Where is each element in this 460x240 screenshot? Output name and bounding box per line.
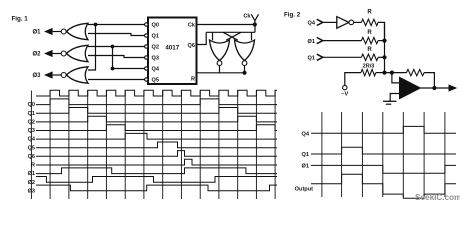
cross wire B <box>223 32 238 40</box>
svg-text:Q4: Q4 <box>302 131 310 137</box>
waveform row Q4 <box>36 133 277 139</box>
svg-text:Q3: Q3 <box>152 56 159 62</box>
pin circle Q0 <box>145 23 148 26</box>
wire clock node down to gate bus <box>254 25 256 33</box>
waveform row Q3 <box>36 125 277 131</box>
pin circle Q5 <box>145 78 148 81</box>
svg-text:Q3: Q3 <box>28 128 35 134</box>
svg-text:Q5: Q5 <box>28 145 35 151</box>
svg-text:Fig. 2: Fig. 2 <box>284 12 301 19</box>
svg-text:Fig. 1: Fig. 1 <box>12 16 29 23</box>
svg-text:Q6: Q6 <box>28 154 35 160</box>
svg-text:Q1: Q1 <box>308 56 315 62</box>
junction node row2 <box>382 39 386 43</box>
resistor R1 <box>361 19 378 25</box>
pin circle Q2 <box>145 45 148 48</box>
waveform row &#216;1 <box>36 168 277 174</box>
svg-text:Q0: Q0 <box>152 23 159 29</box>
wire non-inverting input to ground <box>390 94 399 102</box>
wire Q5 to G3 input <box>88 79 145 81</box>
resistor R2 <box>361 37 378 43</box>
svg-text:R: R <box>367 47 372 53</box>
svg-text:Ck: Ck <box>243 14 251 20</box>
svg-text:Q5: Q5 <box>152 78 159 84</box>
wire Q0 to G1 input <box>88 24 145 26</box>
resistor R3 <box>361 54 378 60</box>
svg-text:2R/3: 2R/3 <box>363 63 375 69</box>
svg-text:Ø3: Ø3 <box>28 188 35 194</box>
wire Q3 to G2 input with jog <box>88 56 145 58</box>
NOR gate G1 with output arrow and label Ø1 <box>67 23 89 39</box>
wire Ø1 to resistor R2 <box>323 40 361 42</box>
feedback resistor R5 <box>407 69 425 75</box>
waveform row Ø1 (fig2) <box>311 165 456 173</box>
waveform row Q4 (fig2) <box>311 126 456 133</box>
NOR gate G5 (flip-flop right) <box>235 40 255 61</box>
svg-text:Ø1: Ø1 <box>32 30 41 36</box>
ground symbol <box>383 100 397 102</box>
waveform row Q1 <box>36 108 277 114</box>
waveform row &#216;3 <box>36 185 277 191</box>
wire op-amp output <box>420 87 449 89</box>
svg-text:R: R <box>191 77 195 83</box>
waveform row Q0 <box>36 99 277 105</box>
pin circle Q3 <box>145 56 148 59</box>
terminal -V <box>343 85 347 89</box>
resistor R4 2R/3 <box>361 69 376 75</box>
junction node on R wire <box>242 71 246 75</box>
wire Q6 pin to top bus <box>197 32 207 44</box>
svg-text:–V: –V <box>341 92 348 98</box>
svg-text:R: R <box>31 163 35 169</box>
wire R2 to node <box>378 40 384 42</box>
wire feedback to output <box>424 73 434 88</box>
wire R1 to node <box>378 22 384 40</box>
svg-text:4017: 4017 <box>165 45 179 52</box>
wire Q1 to resistor R3 <box>323 56 361 58</box>
wire Q4 to bus V2 <box>113 68 145 70</box>
NOR gate G3 with output arrow and label Ø3 <box>67 67 89 83</box>
wire G4 output down <box>219 66 221 73</box>
svg-text:SeekIC.com: SeekIC.com <box>415 193 460 202</box>
wire node to op-amp inverting input <box>385 72 407 74</box>
inverter U2 <box>337 17 349 29</box>
wire stub to G4 left input <box>212 32 214 40</box>
op-amp U3 <box>400 77 421 98</box>
waveform row &#216;2 <box>36 177 277 183</box>
waveform row Q1 (fig2) <box>311 147 456 154</box>
cross wire A <box>226 32 241 40</box>
wire bus V1 from Q0 down to G3 <box>88 25 96 71</box>
wire G5 output down to R wire <box>244 66 246 73</box>
wire Ck pin to clock input node <box>197 24 255 26</box>
svg-text:Q4: Q4 <box>308 21 316 27</box>
wire bus V2 from Q2 to Q4 wire <box>112 47 114 69</box>
junction node on Q0 wire <box>94 23 98 27</box>
wire R pin to gate outputs <box>197 72 245 74</box>
wire R3 to node <box>378 56 384 58</box>
svg-text:Output: Output <box>295 187 313 193</box>
junction node on Q4 wire <box>111 67 115 71</box>
IC U1 4017 box <box>148 18 197 85</box>
summing node vertical wire <box>384 22 386 72</box>
svg-text:Q4: Q4 <box>28 137 36 143</box>
svg-text:Ck: Ck <box>188 23 196 29</box>
junction node row4 <box>382 71 386 75</box>
svg-text:Ø1: Ø1 <box>28 171 35 177</box>
svg-text:Q2: Q2 <box>152 45 159 51</box>
timing grid vertical lines (fig2) <box>321 112 323 197</box>
svg-text:Q1: Q1 <box>28 111 35 117</box>
svg-text:Q2: Q2 <box>28 120 35 126</box>
junction node clock input <box>253 22 257 26</box>
svg-text:Q1: Q1 <box>302 152 309 158</box>
output arrow <box>449 84 458 91</box>
svg-text:Ø3: Ø3 <box>32 73 41 79</box>
wire Q4 to inverter <box>323 21 337 23</box>
waveform row Q6 <box>36 151 277 157</box>
wire Q2 to G2 input <box>88 46 145 48</box>
svg-text:Ø2: Ø2 <box>28 180 35 186</box>
waveform row R <box>36 159 277 165</box>
timing grid vertical lines (fig1) <box>30 91 32 200</box>
clock input terminal Y symbol with label Ck <box>251 14 258 20</box>
NOR gate G2 with output arrow and label Ø2 <box>67 45 89 61</box>
svg-text:Ø2: Ø2 <box>32 52 41 58</box>
svg-text:Q0: Q0 <box>28 102 35 108</box>
wire -V up to resistor R4 <box>345 73 361 86</box>
svg-text:Ø1: Ø1 <box>302 164 309 170</box>
pin circle Q4 <box>145 67 148 70</box>
svg-text:Q4: Q4 <box>152 67 160 73</box>
svg-text:Q6: Q6 <box>188 43 195 49</box>
svg-text:Ø1: Ø1 <box>308 39 315 45</box>
junction node row3 <box>382 55 386 59</box>
pin circle Q1 <box>145 34 148 37</box>
junction node feedback tap <box>390 71 394 75</box>
waveform clock row <box>36 90 277 96</box>
svg-text:R: R <box>367 30 372 36</box>
waveform row Q5 <box>36 142 277 148</box>
svg-text:Q1: Q1 <box>152 34 159 40</box>
NOR gate G4 (flip-flop left) <box>210 40 230 61</box>
svg-text:R: R <box>367 9 372 15</box>
junction node on Q2 wire <box>111 45 115 49</box>
wire R4 to node <box>376 72 385 74</box>
wire stub to G5 right input <box>251 32 253 40</box>
wire top bus over flip-flop gates <box>206 31 255 33</box>
wire inverter to resistor R1 <box>354 21 362 23</box>
junction node output <box>432 86 436 90</box>
waveform row Output (fig2) <box>311 174 456 198</box>
wire Q1 to G1 input with jog <box>88 34 145 36</box>
waveform row Q2 <box>36 116 277 122</box>
